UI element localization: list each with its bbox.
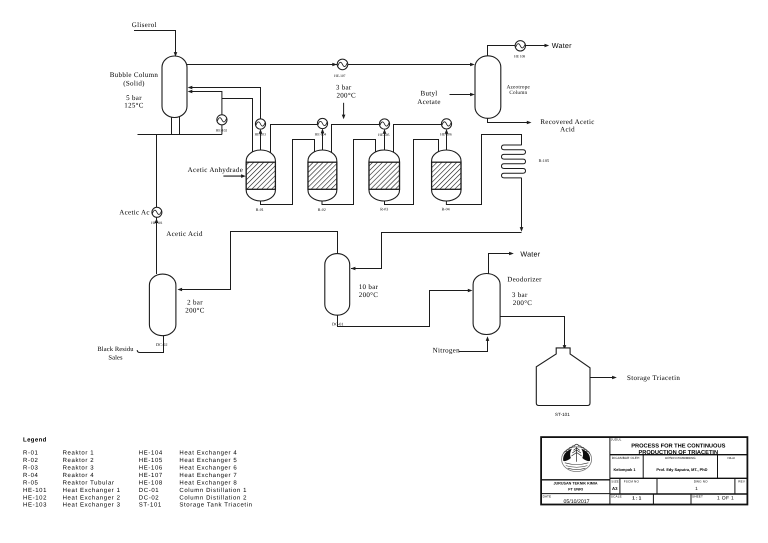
svg-text:Sales: Sales <box>108 355 123 362</box>
svg-text:SCALE: SCALE <box>611 495 622 499</box>
svg-text:HE-104: HE-104 <box>139 450 163 457</box>
svg-text:R-04: R-04 <box>442 207 450 212</box>
wire nitrogen feed <box>459 336 490 351</box>
svg-text:125°C: 125°C <box>124 102 143 110</box>
svg-text:Acid: Acid <box>560 126 575 134</box>
svg-text:Reaktor 2: Reaktor 2 <box>63 457 95 464</box>
svg-text:HE 108: HE 108 <box>514 54 525 58</box>
svg-text:ST-101: ST-101 <box>139 502 162 509</box>
svg-text:HE-106: HE-106 <box>440 133 452 137</box>
svg-text:ST-101: ST-101 <box>555 412 570 417</box>
svg-text:FSCM NO: FSCM NO <box>624 480 640 484</box>
heat exchanger HE-101 <box>152 207 162 217</box>
title block logo UNRI <box>562 444 592 471</box>
svg-text:HE-105: HE-105 <box>139 457 163 464</box>
svg-text:Heat Exchanger 8: Heat Exchanger 8 <box>179 479 237 486</box>
svg-text:R-03: R-03 <box>23 465 39 472</box>
wire butyl acetate feed <box>450 93 475 97</box>
reactor R-03 <box>369 150 400 201</box>
vessel deodorizer <box>473 274 500 335</box>
svg-text:Reaktor 3: Reaktor 3 <box>63 465 95 472</box>
wire R-105 outlet down to feed header <box>520 178 524 232</box>
vessel bubble column <box>162 56 187 118</box>
svg-text:2 bar: 2 bar <box>187 299 203 307</box>
svg-text:R-105: R-105 <box>539 158 549 163</box>
heat exchanger HE-106 <box>441 119 451 129</box>
wire HE-106 to R-03 top right <box>394 125 442 153</box>
wire azeotrope bottoms to recovered acetic acid <box>488 118 532 124</box>
legend column HE tags <box>139 450 163 509</box>
wire azeotrope overhead to water <box>488 44 550 56</box>
svg-text:DC-02: DC-02 <box>139 494 159 501</box>
wire DC-01 overhead to DC-02 <box>177 232 337 292</box>
wire R-01 vapor to HE-103 <box>259 129 263 153</box>
svg-text:R-02: R-02 <box>23 457 39 464</box>
wire storage tank outlet <box>590 376 617 380</box>
svg-text:SIZE: SIZE <box>611 480 618 484</box>
svg-text:200°C: 200°C <box>513 299 532 307</box>
column DC-01 <box>325 254 350 316</box>
svg-text:HE-103: HE-103 <box>255 133 267 137</box>
storage tank ST-101 <box>536 348 590 406</box>
reactor coil R-105 <box>502 145 526 178</box>
svg-text:SHEET: SHEET <box>692 495 703 499</box>
svg-text:Column Distillation 2: Column Distillation 2 <box>179 494 247 501</box>
svg-text:R-05: R-05 <box>23 479 39 486</box>
svg-text:Heat Exchanger 5: Heat Exchanger 5 <box>179 457 237 464</box>
svg-text:R-04: R-04 <box>23 472 39 479</box>
svg-text:R-01: R-01 <box>23 450 39 457</box>
wire DC-01 bottoms to deodorizer <box>338 289 473 327</box>
vessel azeotrope column <box>475 56 501 119</box>
svg-text:DATE: DATE <box>543 494 552 498</box>
wire deodorizer to storage tank <box>500 317 566 350</box>
node acetic anhydrade label with feed line <box>188 166 246 178</box>
svg-text:Heat Exchanger 6: Heat Exchanger 6 <box>179 465 237 472</box>
svg-text:Acetic Ac: Acetic Ac <box>119 209 150 217</box>
svg-text:HE-102: HE-102 <box>23 494 47 501</box>
svg-text:Bubble Column: Bubble Column <box>110 71 159 79</box>
node DC-02 annotation 2 bar 200C <box>185 299 204 315</box>
wire gliserol feed <box>134 31 177 57</box>
svg-text:200°C: 200°C <box>359 291 378 299</box>
node HE-107 annotation 3 bar 200C <box>336 84 356 100</box>
svg-text:10 bar: 10 bar <box>359 283 379 291</box>
svg-text:Black Residu: Black Residu <box>97 346 134 353</box>
wire acetic acid feed through HE-101 to DC-02 <box>155 135 159 275</box>
reactor R-02 <box>308 150 337 201</box>
svg-text:Heat Exchanger 3: Heat Exchanger 3 <box>63 502 121 509</box>
heat exchanger HE-107 <box>337 59 348 70</box>
heat exchanger HE-103 <box>255 119 265 129</box>
svg-text:200°C: 200°C <box>185 306 204 314</box>
svg-text:(Solid): (Solid) <box>123 79 145 87</box>
wire branch to reactor R-01 top left <box>222 99 253 153</box>
svg-text:Butyl: Butyl <box>420 90 437 98</box>
wire R-04 vapor to HE-106 <box>445 129 449 153</box>
wire R-01 bottoms to R-02 <box>261 140 315 205</box>
svg-text:Storage Triacetin: Storage Triacetin <box>627 374 680 382</box>
svg-text:Heat Exchanger 4: Heat Exchanger 4 <box>179 450 237 457</box>
svg-text:Nitrogen: Nitrogen <box>433 347 460 355</box>
svg-text:HE-101: HE-101 <box>23 487 47 494</box>
wire HE-102 bottom to acetic acid line <box>221 125 223 135</box>
heat exchanger HE-105 <box>379 119 389 129</box>
svg-text:Water: Water <box>520 250 540 259</box>
wire bubble column bottom stub right <box>179 114 181 135</box>
column DC-02 <box>149 274 176 336</box>
svg-text:REV: REV <box>738 479 746 483</box>
wire R-04 bottoms to tubular reactor R-105 <box>446 135 521 205</box>
svg-text:HE-103: HE-103 <box>23 502 47 509</box>
svg-text:HE-107: HE-107 <box>139 472 163 479</box>
svg-text:HE-104: HE-104 <box>315 133 327 137</box>
svg-text:3 bar: 3 bar <box>512 291 528 299</box>
node recovered acetic acid label <box>540 118 594 134</box>
svg-text:DC-01: DC-01 <box>332 322 343 327</box>
svg-text:HE-101: HE-101 <box>151 221 163 225</box>
svg-text:R-02: R-02 <box>318 207 326 212</box>
svg-text:Reaktor 1: Reaktor 1 <box>63 450 95 457</box>
node deodorizer label <box>507 276 542 308</box>
svg-text:Prof. Edy Saputra, MT., PhD: Prof. Edy Saputra, MT., PhD <box>656 467 707 472</box>
wire R-03 bottoms to R-04 <box>385 140 439 205</box>
svg-text:Storage Tank Triacetin: Storage Tank Triacetin <box>179 502 252 509</box>
svg-text:HE-106: HE-106 <box>139 465 163 472</box>
svg-text:Reaktor 4: Reaktor 4 <box>63 472 95 479</box>
svg-text:Reaktor Tubular: Reaktor Tubular <box>63 479 115 486</box>
svg-text:Water: Water <box>552 41 572 50</box>
svg-text:HE-107: HE-107 <box>334 74 346 78</box>
svg-text:DWG NO: DWG NO <box>694 479 708 483</box>
heat exchanger HE-104 <box>317 118 327 128</box>
wire bubble column bottom stub left <box>171 114 173 135</box>
wire deodorizer overhead to water <box>489 252 514 274</box>
legend column R names <box>63 450 121 509</box>
heat exchanger HE-108 <box>515 41 525 51</box>
svg-text:1 : 1: 1 : 1 <box>632 496 642 501</box>
svg-text:Heat Exchanger 2: Heat Exchanger 2 <box>63 494 121 501</box>
svg-text:Acetic Acid: Acetic Acid <box>166 230 203 238</box>
svg-text:HE-105: HE-105 <box>378 133 390 137</box>
wire HE-103 vapor return to bubble column <box>188 86 261 120</box>
svg-text:DIGAMBAR OLEH: DIGAMBAR OLEH <box>612 456 640 460</box>
title block texts <box>543 437 746 504</box>
wire R-03 vapor to HE-105 <box>383 129 387 153</box>
node black residu sales label <box>97 346 134 361</box>
wire R-02 vapor to HE-104 <box>321 129 325 153</box>
node DC-01 annotation 10 bar 200C <box>359 283 379 299</box>
svg-text:HE-108: HE-108 <box>139 479 163 486</box>
svg-text:05/10/2017: 05/10/2017 <box>564 499 590 505</box>
svg-text:3 bar: 3 bar <box>336 84 352 92</box>
svg-text:NILAI: NILAI <box>727 456 735 460</box>
svg-text:JUDUL: JUDUL <box>611 437 622 441</box>
svg-text:PROCESS FOR THE CONTINUOUS: PROCESS FOR THE CONTINUOUS <box>631 444 725 450</box>
legend column R tags <box>23 450 47 509</box>
svg-text:R-01: R-01 <box>256 207 264 212</box>
svg-text:Acetic Anhydrade: Acetic Anhydrade <box>188 166 244 174</box>
svg-text:Heat Exchanger 7: Heat Exchanger 7 <box>179 472 237 479</box>
node butyl acetate label <box>417 90 440 106</box>
svg-text:Heat Exchanger 1: Heat Exchanger 1 <box>63 487 121 494</box>
svg-text:FT UNRI: FT UNRI <box>568 488 583 492</box>
svg-text:A3: A3 <box>612 486 618 491</box>
node azeotrope column label <box>507 84 531 96</box>
heat exchanger HE-102 <box>217 115 227 125</box>
svg-text:200°C: 200°C <box>336 92 355 100</box>
wire bubble column overhead to azeotrope column <box>187 63 475 67</box>
wire R-02 bottoms to R-03 <box>322 140 376 205</box>
wire feed header to DC-01 <box>351 233 522 271</box>
svg-text:PRODUCTION OF TRIACETIN: PRODUCTION OF TRIACETIN <box>638 450 718 456</box>
svg-text:Acetate: Acetate <box>417 98 440 106</box>
wire 3 bar 200C stream annotation arrow <box>342 103 346 120</box>
wire HE-102 outlet to bubble column <box>188 90 222 115</box>
svg-text:DC-01: DC-01 <box>139 487 159 494</box>
svg-text:Column Distillation 1: Column Distillation 1 <box>179 487 247 494</box>
wire DC-02 bottoms to black residu sales <box>137 334 163 353</box>
svg-text:HE-102: HE-102 <box>216 128 228 132</box>
svg-text:1 OF 1: 1 OF 1 <box>717 496 734 502</box>
title block frame <box>541 437 747 504</box>
wire HE-104 to R-01 top right <box>271 125 318 153</box>
reactor R-04 <box>432 150 461 201</box>
wire HE-105 to R-02 top right <box>332 125 380 153</box>
node bubble column label <box>110 71 159 110</box>
svg-text:Gliserol: Gliserol <box>132 21 157 29</box>
svg-text:DOSEN PEMBIMBING: DOSEN PEMBIMBING <box>665 456 696 460</box>
svg-text:Legend: Legend <box>23 437 47 444</box>
svg-text:Kelompok 1: Kelompok 1 <box>613 467 636 472</box>
svg-text:Column: Column <box>509 90 527 96</box>
legend column HE names <box>179 450 252 509</box>
svg-text:JURUSAN TEKNIK KIMIA: JURUSAN TEKNIK KIMIA <box>553 482 597 486</box>
svg-text:DC-02: DC-02 <box>156 342 167 347</box>
svg-text:R-03: R-03 <box>380 207 388 212</box>
wire acetic acid header <box>138 134 222 136</box>
reactor R-01 <box>246 150 275 201</box>
svg-text:Deodorizer: Deodorizer <box>507 276 542 284</box>
